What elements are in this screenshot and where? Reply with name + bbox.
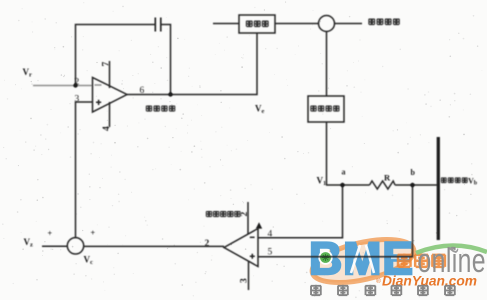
summing circle [67,238,83,254]
watermark wrench [449,247,458,253]
watermark orange ellipse swoosh [308,231,418,290]
load circle [319,16,335,32]
pin 7 line [109,61,111,88]
resistor R [370,181,395,189]
arrowhead above U2 [256,222,262,228]
node a dot [340,183,344,187]
wire node b down + to pin5 [258,185,413,257]
op-amp U2 minus dash [250,236,255,238]
svg-text:2: 2 [240,212,250,217]
svg-text:b: b [411,168,416,177]
label 负载电流 [369,18,375,25]
wire cap to corner, down to output [161,25,171,95]
svg-text:+: + [48,229,53,238]
svg-text:4: 4 [268,230,273,240]
svg-text:a: a [342,168,346,177]
wire pin3 input + down to summing circle [76,102,93,238]
wire circle to right [335,23,362,25]
svg-text:4: 4 [102,126,112,131]
box power stage 功率级 [239,15,275,33]
junction dot at feedback/output [168,92,172,96]
svg-text:R: R [384,173,391,183]
bus bar (thick) [437,137,440,240]
box current amp 电流放大 [308,96,344,122]
label 功率级 in box [246,20,252,27]
op-amp U1 minus dash (gray) [95,84,102,86]
op-amp U1 [93,78,128,113]
node b dot [410,183,414,187]
svg-text:3: 3 [240,278,250,283]
svg-text:+: + [91,229,96,238]
wire resistor to bus [395,184,437,186]
wire Vr input (gray) [33,85,93,87]
svg-text:6: 6 [140,86,145,96]
wire stub left of power stage [213,23,239,25]
wire feedback left leg + top rail [76,25,156,86]
label 电压放大 [146,105,152,111]
watermark orange chars 电源网 [398,253,446,268]
pin 4 line [109,102,111,127]
junction dot at U1 pin2 [73,83,77,87]
svg-text:2: 2 [75,78,80,88]
wire box to circle [275,23,318,25]
svg-text:2: 2 [205,239,210,249]
watermark BME white inner details [351,245,360,273]
wire box down to node V1 [326,122,328,185]
op-amp U2 [224,229,258,267]
svg-text:5: 5 [268,248,273,258]
wire Vz input [42,245,67,247]
label 均流母线 [441,177,446,183]
svg-text:7: 7 [102,62,112,67]
op-amp U2 plus sign [250,254,255,259]
capacitor C1 [155,18,161,32]
svg-text:®: ® [376,277,381,285]
U2 top pin line [247,202,249,235]
watermark green dot in B [318,250,332,264]
watermark green arc [416,245,487,253]
svg-text:3: 3 [75,95,80,105]
U2 bottom pin line [248,262,250,291]
watermark gray chars 医学工程在线 [311,285,455,296]
wire V1 rail left part [326,184,370,186]
label 均流控制器 [206,211,212,217]
op-amp U1 plus sign [96,100,101,105]
wire node a down + to pin4 [258,185,343,238]
label 电流放大 in box [311,105,317,111]
wire circle down to current amp [326,32,328,96]
wire U1 output to corner, up to power stage [127,33,257,95]
wire U2 output to summing circle [84,245,224,247]
